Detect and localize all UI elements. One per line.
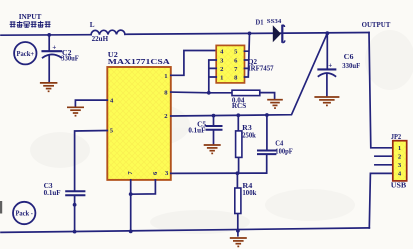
wire: Q2 source pins 3,2,1 tie	[209, 60, 216, 93]
wire: bottom ground rail	[1, 228, 369, 233]
ground (RCS)	[267, 100, 283, 108]
wire: Q2 drain pins 5,6,7,8 tie to top rail	[245, 33, 250, 77]
wire: U2 pin1 (EXT) to Q2 gate	[171, 51, 216, 76]
(scan artifact left edge)	[0, 201, 2, 214]
transistor Q2 IRF7457 (SO-8 MOSFET)	[216, 45, 244, 83]
svg-text:Pack+: Pack+	[17, 51, 35, 58]
ground (C6)	[314, 97, 339, 105]
svg-text:D1: D1	[256, 19, 264, 27]
wire: bottom rail up to JP2 pin4	[369, 173, 393, 228]
node: R3 junction on V+ rail	[236, 113, 240, 117]
(scan background mottling)	[30, 30, 413, 234]
capacitor C6 330uF (output)	[318, 33, 335, 95]
wire: U2 pins 7,6 (GND) tied to bottom rail	[131, 180, 156, 232]
op-amp/controller U2 MAX1771CSA	[107, 67, 171, 180]
wire: JP2 pin2 stub	[375, 155, 393, 157]
node: CS junction	[207, 91, 211, 95]
svg-text:INPUT: INPUT	[19, 12, 42, 21]
svg-text:0.1uF: 0.1uF	[188, 127, 205, 135]
svg-text:OUTPUT: OUTPUT	[362, 20, 391, 29]
label 保护电路输出 (protection circuit output)	[10, 21, 51, 28]
ground (C5)	[204, 145, 221, 153]
svg-text:MAX1771CSA: MAX1771CSA	[108, 58, 170, 66]
svg-text:1: 1	[164, 73, 167, 80]
svg-text:Pack -: Pack -	[15, 211, 33, 218]
svg-text:RCS: RCS	[232, 102, 246, 110]
svg-text:USB: USB	[391, 181, 407, 189]
svg-text:IRF7457: IRF7457	[248, 65, 274, 73]
resistor RCS 0.04	[232, 90, 260, 95]
node: output/C6 junction	[325, 31, 329, 35]
capacitor C2 330uF (input)	[43, 35, 62, 82]
node: pins7/6 tie junction	[129, 192, 133, 196]
ground (C2)	[40, 83, 58, 91]
svg-text:250k: 250k	[242, 132, 256, 140]
svg-text:0.1uF: 0.1uF	[44, 189, 61, 197]
capacitor C3 0.1uF	[66, 191, 84, 232]
svg-text:100pF: 100pF	[275, 147, 293, 155]
ground (U2 pin4)	[67, 107, 84, 115]
wire: U2 pin8 (CS) to sense node	[171, 91, 209, 94]
wire: sense node to RCS	[209, 92, 232, 94]
svg-text:C6: C6	[344, 53, 354, 61]
wire: RCS to ground	[260, 93, 275, 99]
node: Q2 drain junction on top rail	[248, 32, 252, 36]
svg-text:+: +	[328, 61, 332, 69]
svg-text:C4: C4	[275, 139, 283, 147]
node: FB divider junction	[236, 171, 240, 175]
inductor L coil	[91, 30, 125, 35]
wire: output drop to JP2 pin1	[369, 33, 393, 148]
svg-text:JP2: JP2	[391, 134, 402, 141]
svg-text:1: 1	[398, 145, 401, 152]
wire: input top rail	[1, 34, 91, 37]
wire: U2 pin3 (FB) to divider	[171, 172, 267, 174]
node: C2 junction on input rail	[47, 33, 51, 37]
svg-text:1: 1	[220, 75, 223, 82]
node: R4 to bottom rail junction	[236, 229, 240, 233]
wire: inductor to diode and output node	[125, 33, 369, 35]
Pack- terminal circle	[13, 202, 35, 224]
Pack+ terminal circle	[14, 42, 36, 64]
svg-text:100k: 100k	[242, 189, 256, 197]
svg-text:+: +	[52, 43, 56, 51]
wire: U2 pin2 (V+) rail and diagonal to output	[171, 33, 327, 116]
svg-text:330uF: 330uF	[61, 55, 79, 63]
svg-text:SS34: SS34	[267, 18, 282, 25]
wire: U2 pin4 (SHDN) to ground	[75, 100, 107, 106]
node: dot below C3	[73, 203, 77, 207]
svg-text:330uF: 330uF	[342, 62, 360, 70]
capacitor C5 0.1uF	[207, 116, 222, 144]
node: pins7/6 drop to rail	[129, 230, 133, 234]
connector JP2 USB	[393, 141, 407, 181]
resistor R3 250k	[237, 115, 239, 173]
node: C5 junction on V+ rail	[212, 114, 216, 118]
wire: U2 pin5 (REF) down to C3	[75, 131, 108, 191]
diode D1 SS34 (Schottky)	[273, 25, 285, 43]
resistor R4 100k	[236, 173, 238, 231]
node: C4 junction on V+ rail	[265, 113, 269, 117]
node: C3 to bottom rail junction	[73, 230, 77, 234]
capacitor C4 100pF	[258, 115, 275, 173]
svg-text:22uH: 22uH	[92, 36, 109, 43]
ground (bottom rail)	[237, 231, 239, 237]
svg-text:L: L	[90, 21, 95, 29]
wire: JP2 pin3 stub	[375, 164, 393, 166]
